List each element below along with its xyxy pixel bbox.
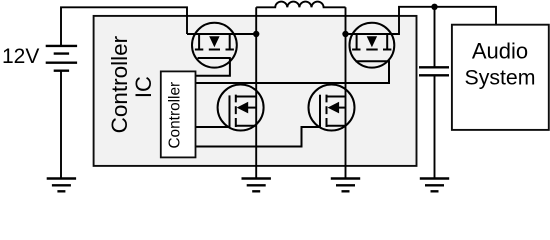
- transistor Q4 (low-side right MOSFET): [309, 85, 355, 131]
- wire Q4 gate to controller: [196, 127, 320, 147]
- svg-text:System: System: [464, 66, 535, 90]
- wire node A column: [255, 7, 257, 178]
- svg-text:12V: 12V: [2, 45, 39, 68]
- svg-text:Controller: Controller: [107, 35, 132, 133]
- svg-text:Controller: Controller: [167, 82, 184, 149]
- wire capacitor bottom: [434, 75, 436, 178]
- ground (capacitor): [420, 179, 449, 192]
- wire M2 rail to output: [346, 7, 497, 34]
- transistor Q3 (low-side left MOSFET): [218, 85, 264, 131]
- node A junction dot: [253, 31, 259, 37]
- wire Q2 gate to controller: [196, 60, 390, 83]
- capacitor C1: [419, 67, 449, 75]
- wire capacitor top: [434, 7, 436, 68]
- wire battery top to M1 rail: [61, 7, 187, 46]
- inductor L1: [256, 2, 345, 8]
- transistor Q1 (high-side left MOSFET): [192, 23, 237, 68]
- wire M1 rail: [187, 33, 256, 35]
- ground (battery): [47, 179, 76, 192]
- svg-text:Audio: Audio: [472, 39, 528, 64]
- output node junction dot: [431, 4, 437, 10]
- svg-text:IC: IC: [131, 76, 156, 98]
- wire Q1 gate to controller: [196, 57, 230, 76]
- audio system box: [452, 25, 549, 130]
- wire node B column: [345, 7, 347, 178]
- wire battery bottom: [60, 71, 62, 179]
- ground (M4 source): [331, 179, 360, 192]
- node B junction dot: [342, 31, 348, 37]
- battery B1 12V: [46, 46, 77, 71]
- controller inner box: [161, 71, 196, 157]
- controller IC box: [94, 16, 417, 166]
- transistor Q2 (high-side right MOSFET): [350, 23, 395, 68]
- wire Q3 gate to controller: [196, 126, 229, 128]
- ground (M3 source): [242, 179, 271, 192]
